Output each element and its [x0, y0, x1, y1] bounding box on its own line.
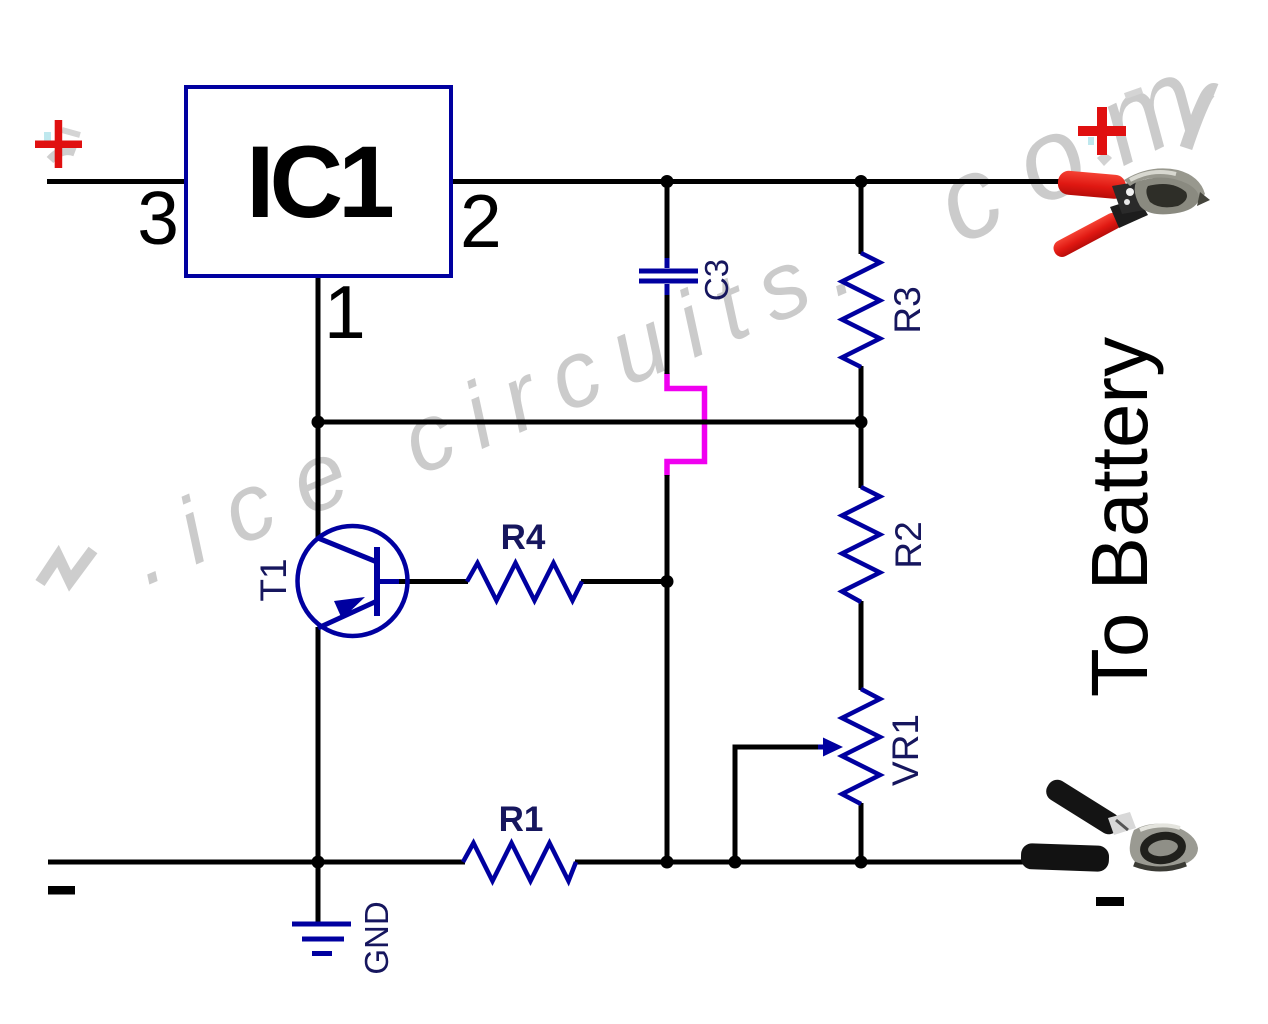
svg-text:T1: T1 — [253, 558, 294, 601]
wire IC1 pin1 vertical upper — [316, 275, 321, 540]
red clip upper handle — [1057, 170, 1127, 200]
black clip spring highlights — [1108, 812, 1136, 835]
black clip metal head — [1130, 824, 1198, 869]
watermark flecks near left plus — [44, 130, 80, 160]
resistor R2 — [842, 487, 880, 602]
node bottom wiper — [729, 856, 742, 869]
wire C3 net upper — [665, 179, 670, 260]
wire transistor emitter vertical lower — [316, 627, 321, 864]
svg-text:3: 3 — [137, 176, 179, 260]
node middle R3 — [855, 416, 868, 429]
black clip head shading — [1134, 864, 1186, 869]
wire R4 right — [581, 579, 669, 584]
svg-text:R2: R2 — [888, 521, 929, 568]
wire top left — [47, 179, 186, 184]
red battery clip — [1051, 168, 1210, 259]
wire C3 net middle — [665, 293, 670, 374]
black clip lower handle — [1021, 843, 1110, 872]
svg-text:R1: R1 — [499, 800, 544, 839]
resistor R3 — [842, 253, 880, 367]
node middle left — [312, 416, 325, 429]
potentiometer VR1 — [842, 689, 880, 804]
node R4 right — [661, 575, 674, 588]
wire top right — [450, 179, 1063, 184]
plus terminal right — [1078, 107, 1126, 155]
svg-text:R4: R4 — [501, 518, 546, 557]
plus terminal left — [35, 120, 82, 168]
red clip lower handle — [1051, 210, 1124, 260]
svg-text:GND: GND — [358, 901, 395, 974]
resistor R4 — [467, 563, 582, 601]
red clip head dark inner — [1146, 184, 1187, 207]
node top C3 — [661, 175, 674, 188]
wire VR1 wiper vertical — [733, 745, 738, 865]
wire magenta jumper — [667, 373, 705, 476]
wire middle horizontal — [318, 420, 861, 425]
black clip head ring — [1143, 833, 1184, 862]
red clip lower handle sleeve — [1110, 198, 1148, 228]
wire R2 to VR1 — [859, 601, 864, 690]
svg-text:IC1: IC1 — [246, 125, 392, 239]
transistor T1 emitter arrow — [334, 597, 365, 619]
IC IC1 box — [186, 87, 451, 276]
red clip metal head top — [1124, 168, 1205, 204]
svg-text:C3: C3 — [698, 259, 735, 301]
svg-text:1: 1 — [324, 270, 366, 354]
svg-text:R3: R3 — [887, 286, 928, 333]
node bottom emitter — [312, 856, 325, 869]
wire bottom left — [48, 860, 465, 865]
node top R3 — [855, 175, 868, 188]
ground — [292, 922, 351, 957]
red clip highlights — [1130, 172, 1176, 180]
black clip upper handle — [1042, 776, 1123, 838]
wire gnd stub — [316, 862, 321, 924]
red clip metal head body — [1135, 177, 1199, 214]
minus terminal left — [48, 886, 75, 895]
watermark icecircuits — [113, 20, 1246, 604]
transistor T1 — [298, 526, 408, 636]
wire C3 net lower — [665, 475, 670, 864]
node bottom C3 net — [661, 856, 674, 869]
potentiometer VR1 wiper arrow — [818, 738, 843, 757]
svg-text:2: 2 — [460, 179, 502, 263]
svg-text:To Battery: To Battery — [1075, 337, 1164, 697]
wire base to R4 — [397, 579, 468, 584]
black battery clip — [1021, 776, 1198, 872]
watermark w fragment — [40, 550, 93, 583]
red clip pivot dark — [1112, 180, 1156, 214]
wire bottom right — [575, 860, 1024, 865]
svg-text:VR1: VR1 — [885, 714, 926, 786]
wire R3 top — [859, 179, 864, 254]
wire R3 to R2 — [859, 366, 864, 488]
capacitor C3 — [639, 258, 698, 295]
wire VR1 bottom — [859, 803, 864, 864]
watermark flecks near right plus — [1088, 90, 1142, 166]
wire VR1 wiper horizontal — [735, 745, 822, 750]
resistor R1 — [463, 843, 576, 881]
node bottom VR1 — [855, 856, 868, 869]
svg-text:.ice: .ice — [113, 408, 388, 605]
minus terminal right — [1096, 897, 1124, 906]
